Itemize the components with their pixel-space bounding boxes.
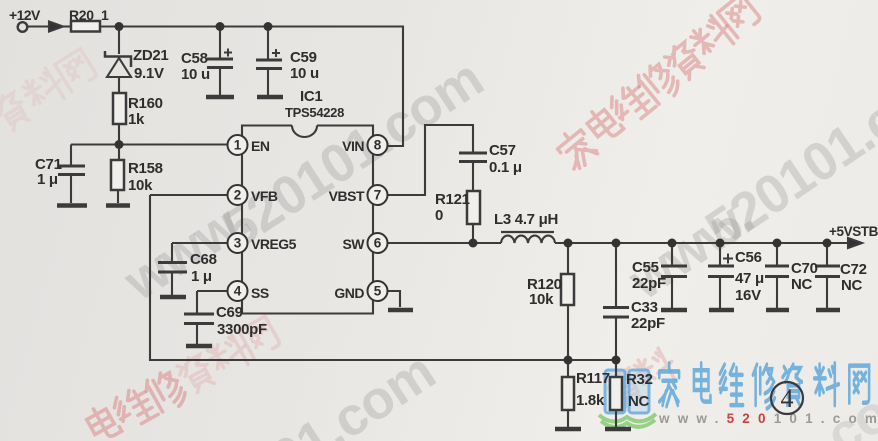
svg-text:1 μ: 1 μ [37,171,58,188]
svg-text:5: 5 [374,284,382,299]
svg-text:10k: 10k [529,291,554,308]
svg-text:C69: C69 [216,304,243,321]
svg-text:+5VSTB: +5VSTB [829,224,878,239]
svg-text:GND: GND [334,285,364,301]
svg-text:R158: R158 [128,160,163,177]
svg-text:VREG5: VREG5 [251,236,297,252]
svg-text:10k: 10k [128,177,153,194]
svg-text:3: 3 [234,236,242,251]
svg-text:IC1: IC1 [300,88,322,105]
svg-text:EN: EN [251,138,270,154]
svg-text:16V: 16V [735,287,761,304]
svg-text:10 u: 10 u [290,65,319,82]
svg-text:0.1 μ: 0.1 μ [489,159,522,176]
svg-text:0: 0 [435,207,443,224]
svg-text:22pF: 22pF [632,275,666,292]
svg-text:R160: R160 [128,95,163,112]
svg-text:SW: SW [342,236,365,252]
svg-text:ZD21: ZD21 [133,47,168,64]
svg-text:520101.com: 520101.com [212,48,493,260]
svg-text:L3 4.7 μH: L3 4.7 μH [494,211,558,228]
svg-text:NC: NC [791,276,813,293]
svg-text:www.520101.com: www.520101.com [658,411,878,426]
svg-text:3300pF: 3300pF [217,321,267,338]
svg-text:R32: R32 [626,371,653,388]
svg-text:C70: C70 [791,260,818,277]
svg-text:1: 1 [234,138,242,153]
svg-text:C57: C57 [489,142,516,159]
svg-text:C58: C58 [181,50,208,67]
svg-text:1 μ: 1 μ [191,268,212,285]
svg-text:2: 2 [234,188,242,203]
svg-text:10 u: 10 u [181,66,210,83]
svg-text:SS: SS [251,285,269,301]
svg-text:C55: C55 [632,259,659,276]
svg-text:520101.com: 520101.com [164,341,445,441]
svg-text:1k: 1k [128,111,145,128]
svg-text:C33: C33 [631,299,658,316]
svg-text:C59: C59 [290,49,317,66]
svg-text:4: 4 [234,284,242,299]
svg-text:R121: R121 [435,191,470,208]
svg-text:VFB: VFB [251,188,278,204]
svg-text:NC: NC [628,393,650,410]
svg-text:4: 4 [781,384,794,413]
svg-text:7: 7 [374,188,382,203]
svg-text:8: 8 [374,138,382,153]
svg-text:TPS54228: TPS54228 [285,105,344,120]
svg-text:NC: NC [841,277,863,294]
svg-text:VIN: VIN [342,138,364,154]
svg-text:22pF: 22pF [631,315,665,332]
svg-text:C56: C56 [735,249,762,266]
svg-text:1.8k: 1.8k [576,392,605,409]
svg-text:+12V: +12V [9,7,41,23]
svg-text:VBST: VBST [329,188,365,204]
svg-text:47 μ: 47 μ [735,270,764,287]
svg-text:C72: C72 [840,261,867,278]
svg-text:R20 1: R20 1 [69,7,109,23]
svg-text:9.1V: 9.1V [134,65,164,82]
svg-text:6: 6 [374,236,382,251]
svg-text:C68: C68 [190,251,217,268]
svg-text:R117: R117 [576,370,610,387]
